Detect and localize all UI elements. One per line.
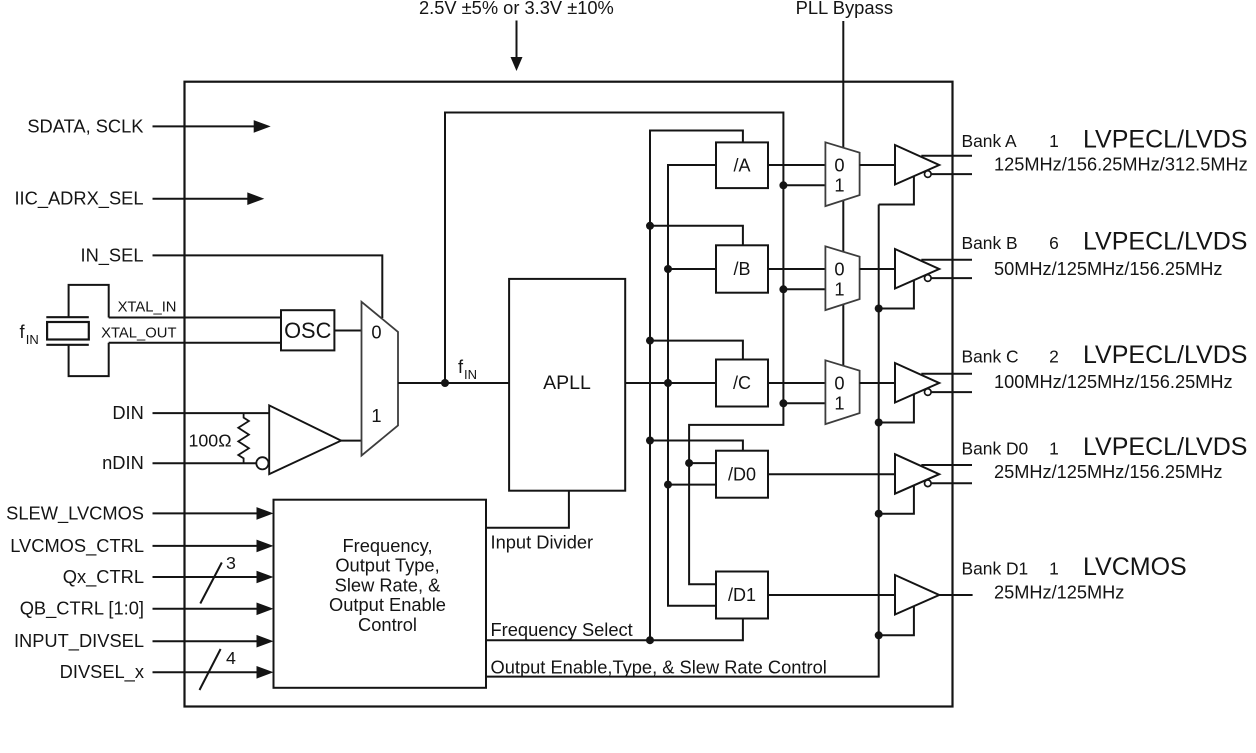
Bank A label	[962, 131, 1018, 151]
Bank D1 label	[962, 559, 1029, 579]
svg-text:INPUT_DIVSEL: INPUT_DIVSEL	[14, 630, 144, 652]
wire buffer A output complement	[931, 173, 972, 175]
output buffer B	[895, 249, 939, 289]
bank D0 count	[1049, 439, 1059, 459]
divider /B	[716, 245, 768, 292]
wire /C output to mux	[768, 382, 825, 384]
bank D0 frequencies	[994, 462, 1222, 482]
svg-text:1: 1	[834, 393, 844, 414]
node enable junction D1	[875, 631, 883, 639]
wire buffer D1 enable	[879, 606, 914, 636]
bank B output type	[1083, 228, 1247, 256]
svg-text:1: 1	[371, 405, 381, 426]
bus width slash 4 (DIVSEL_x)	[200, 648, 237, 690]
XTAL_OUT label	[101, 326, 176, 342]
divider /C	[716, 360, 768, 407]
svg-text:Frequency Select: Frequency Select	[491, 619, 633, 640]
svg-text:3: 3	[226, 553, 236, 573]
wire buffer B output true	[921, 259, 972, 261]
Bank B label	[962, 233, 1018, 253]
nDIN label	[102, 452, 144, 473]
wire Qx_CTRL input	[153, 571, 274, 584]
wire bypass to mux C input 1	[779, 399, 825, 407]
wire APLL dist stub /B	[668, 268, 716, 270]
svg-text:LVPECL/LVDS: LVPECL/LVDS	[1083, 126, 1247, 154]
wire SDATA/SCLK input	[153, 120, 271, 133]
svg-text:25MHz/125MHz: 25MHz/125MHz	[994, 583, 1124, 603]
wire crystal top loop	[69, 285, 109, 318]
bank C output type	[1083, 341, 1247, 369]
svg-text:/D0: /D0	[728, 464, 756, 484]
wire DIN input	[153, 412, 270, 414]
PLL Bypass select wire	[842, 21, 844, 414]
svg-text:IN: IN	[464, 367, 477, 382]
wire XTAL_IN	[109, 317, 281, 319]
wire nDIN input	[153, 462, 257, 464]
wire INPUT_DIVSEL input	[153, 635, 274, 648]
divider /A	[716, 142, 768, 188]
svg-text:Qx_CTRL: Qx_CTRL	[63, 566, 144, 588]
wire buffer C output true	[921, 373, 972, 375]
wire XTAL_OUT	[109, 342, 281, 344]
wire buffer A output true	[921, 155, 972, 157]
svg-text:IN_SEL: IN_SEL	[80, 244, 143, 266]
svg-text:QB_CTRL [1:0]: QB_CTRL [1:0]	[20, 598, 144, 620]
svg-text:/D1: /D1	[728, 585, 756, 605]
svg-text:125MHz/156.25MHz/312.5MHz: 125MHz/156.25MHz/312.5MHz	[994, 155, 1248, 175]
svg-text:Bank C: Bank C	[962, 347, 1019, 367]
wire bypass to mux B input 1	[779, 285, 825, 293]
crystal Y1	[46, 317, 89, 345]
APLL block	[509, 279, 625, 491]
input buffer U1 (differential receiver)	[256, 405, 341, 474]
mux C (PLL bypass 0/1)	[825, 360, 859, 424]
svg-text:LVCMOS_CTRL: LVCMOS_CTRL	[10, 535, 144, 557]
Bank D0 label	[962, 439, 1029, 459]
svg-text:LVCMOS: LVCMOS	[1083, 553, 1187, 581]
svg-text:IN: IN	[26, 332, 39, 347]
IN_SEL label	[80, 244, 143, 266]
Bank C label	[962, 347, 1019, 367]
svg-text:/A: /A	[733, 155, 750, 175]
divider /D0	[716, 451, 768, 498]
INPUT_DIVSEL label	[14, 630, 144, 652]
node bypass /D0 junction	[685, 459, 693, 467]
SDATA, SCLK label	[27, 115, 143, 136]
svg-text:1: 1	[1049, 559, 1059, 579]
resistor 100 ohm termination	[189, 413, 249, 463]
svg-text:LVPECL/LVDS: LVPECL/LVDS	[1083, 228, 1247, 256]
wire buffer D0 enable	[879, 485, 914, 514]
Output Enable,Type, & Slew Rate Control label	[491, 657, 827, 678]
svg-text:Input Divider: Input Divider	[491, 532, 594, 553]
bank D1 count	[1049, 559, 1059, 579]
svg-text:0: 0	[834, 372, 844, 393]
bank C count	[1049, 347, 1059, 367]
svg-text:Output Enable,Type, & Slew Rat: Output Enable,Type, & Slew Rate Control	[491, 657, 827, 678]
wire IIC_ADRX_SEL input	[153, 192, 265, 205]
svg-text:2.5V ±5% or 3.3V ±10%: 2.5V ±5% or 3.3V ±10%	[419, 0, 614, 18]
f_IN label (crystal)	[20, 321, 39, 347]
svg-text:SDATA, SCLK: SDATA, SCLK	[27, 115, 143, 136]
wire buffer D1 output	[939, 594, 972, 596]
mux B (PLL bypass 0/1)	[825, 246, 859, 310]
Qx_CTRL label	[63, 566, 144, 588]
wire output enable route	[486, 205, 879, 677]
chip boundary box	[185, 82, 953, 707]
PLL Bypass label	[796, 0, 893, 18]
svg-text:/B: /B	[733, 259, 750, 279]
svg-text:IIC_ADRX_SEL: IIC_ADRX_SEL	[14, 188, 143, 210]
bank D1 frequencies	[994, 583, 1124, 603]
bank A output type	[1083, 126, 1247, 154]
wire IN_SEL to input mux select	[153, 255, 383, 318]
svg-text:OSC: OSC	[284, 318, 331, 343]
node enable junction B	[875, 305, 883, 313]
svg-text:25MHz/125MHz/156.25MHz: 25MHz/125MHz/156.25MHz	[994, 462, 1222, 482]
svg-text:SLEW_LVCMOS: SLEW_LVCMOS	[6, 502, 144, 524]
svg-text:100Ω: 100Ω	[189, 431, 232, 451]
output buffer D0	[895, 454, 939, 494]
node APLL dist junctions	[664, 265, 672, 489]
svg-text:50MHz/125MHz/156.25MHz: 50MHz/125MHz/156.25MHz	[994, 259, 1222, 279]
wire buffer B output complement	[931, 277, 972, 279]
svg-text:1: 1	[1049, 439, 1059, 459]
QB_CTRL [1:0] label	[20, 598, 144, 620]
wire buffer D0 output complement	[931, 482, 972, 484]
wire /B output to mux	[768, 268, 825, 270]
Frequency Select label	[491, 619, 633, 640]
wire /D1 output to buffer	[768, 594, 895, 596]
wire QB_CTRL [1:0] input	[153, 603, 274, 616]
output buffer D1	[895, 575, 939, 615]
svg-text:1: 1	[1049, 131, 1059, 151]
svg-text:6: 6	[1049, 233, 1059, 253]
oscillator OSC	[281, 310, 334, 350]
DIVSEL_x label	[60, 661, 144, 683]
svg-text:DIN: DIN	[112, 402, 143, 423]
svg-text:LVPECL/LVDS: LVPECL/LVDS	[1083, 341, 1247, 369]
wire buffer C output complement	[931, 391, 972, 393]
svg-text:nDIN: nDIN	[102, 452, 144, 473]
svg-text:0: 0	[834, 154, 844, 175]
wire bypass to mux A input 1	[779, 181, 825, 189]
divider /D1	[716, 572, 768, 619]
svg-text:Control: Control	[358, 614, 417, 635]
wire buffer output to mux 1	[341, 440, 361, 442]
bank C frequencies	[994, 372, 1233, 392]
LVCMOS_CTRL label	[10, 535, 144, 557]
bank B frequencies	[994, 259, 1222, 279]
node enable junction C	[875, 419, 883, 427]
node enable junction D0	[875, 510, 883, 518]
wire freq select stub /B	[650, 226, 743, 246]
wire SLEW_LVCMOS input	[153, 507, 274, 520]
node f_IN junction	[441, 379, 449, 387]
svg-text:DIVSEL_x: DIVSEL_x	[60, 661, 144, 683]
power supply label	[419, 0, 614, 18]
svg-text:Slew Rate, &: Slew Rate, &	[335, 574, 441, 595]
svg-text:Frequency,: Frequency,	[342, 535, 432, 556]
wire /D0 output to buffer	[768, 473, 895, 475]
svg-text:0: 0	[371, 322, 381, 343]
svg-text:/C: /C	[733, 373, 751, 393]
wire mux B output to buffer	[860, 268, 895, 270]
wire buffer B enable	[879, 280, 914, 309]
svg-text:Bank A: Bank A	[962, 131, 1018, 151]
svg-text:LVPECL/LVDS: LVPECL/LVDS	[1083, 433, 1247, 461]
node freq select junctions	[646, 222, 654, 644]
control block (Frequency, Output Type, Slew Rate, & Output Enable Control)	[274, 500, 487, 688]
wire Frequency Select riser	[650, 131, 743, 641]
Input Divider label	[491, 532, 594, 553]
wire f_IN bypass riser	[445, 113, 783, 585]
wire APLL input divider control	[486, 491, 569, 528]
wire OSC output to mux 0	[334, 330, 361, 332]
svg-text:1: 1	[834, 175, 844, 196]
wire APLL output to /C	[625, 382, 716, 384]
svg-text:APLL: APLL	[543, 372, 591, 394]
bank D1 output type	[1083, 553, 1187, 581]
output buffer A	[895, 145, 939, 185]
wire mux A output to buffer	[860, 164, 895, 166]
bank B count	[1049, 233, 1059, 253]
wire /A output to mux	[768, 164, 825, 166]
svg-text:0: 0	[834, 258, 844, 279]
DIN label	[112, 402, 143, 423]
wire freq select stub /D0	[650, 441, 743, 451]
svg-text:100MHz/125MHz/156.25MHz: 100MHz/125MHz/156.25MHz	[994, 372, 1233, 392]
bus width slash 3 (Qx_CTRL)	[200, 553, 236, 604]
svg-text:XTAL_OUT: XTAL_OUT	[101, 326, 176, 342]
svg-text:Bank D1: Bank D1	[962, 559, 1029, 579]
wire Frequency Select	[486, 619, 743, 641]
IIC_ADRX_SEL label	[14, 188, 143, 210]
power supply arrow	[511, 21, 523, 72]
bank D0 output type	[1083, 433, 1247, 461]
output buffer C	[895, 363, 939, 403]
wire APLL dist stub /D0	[668, 484, 716, 486]
svg-text:Output Type,: Output Type,	[335, 555, 439, 576]
SLEW_LVCMOS label	[6, 502, 144, 524]
svg-text:4: 4	[226, 648, 236, 668]
svg-text:Output Enable: Output Enable	[329, 594, 446, 615]
wire LVCMOS_CTRL input	[153, 540, 274, 553]
wire DIVSEL_x input	[153, 666, 274, 679]
input mux (0/1)	[362, 302, 399, 456]
wire buffer D0 output true	[921, 464, 972, 466]
svg-text:Bank D0: Bank D0	[962, 439, 1029, 459]
svg-text:2: 2	[1049, 347, 1059, 367]
svg-text:1: 1	[834, 279, 844, 300]
wire bypass stub /D0 upper	[689, 462, 716, 464]
wire freq select stub /C	[650, 341, 743, 360]
wire buffer C enable	[879, 394, 914, 423]
bank A count	[1049, 131, 1059, 151]
svg-text:XTAL_IN: XTAL_IN	[118, 300, 177, 316]
f_IN node label	[458, 356, 477, 382]
bank A frequencies	[994, 155, 1248, 175]
svg-text:Bank B: Bank B	[962, 233, 1018, 253]
wire crystal bottom loop	[69, 343, 109, 376]
mux A (PLL bypass 0/1)	[825, 142, 859, 206]
wire mux C output to buffer	[860, 382, 895, 384]
XTAL_IN label	[118, 300, 177, 316]
wire APLL output distribution riser	[668, 165, 716, 606]
wire buffer A enable	[879, 176, 914, 205]
wire mux output / f_IN node to APLL	[398, 382, 509, 384]
svg-text:PLL Bypass: PLL Bypass	[796, 0, 893, 18]
